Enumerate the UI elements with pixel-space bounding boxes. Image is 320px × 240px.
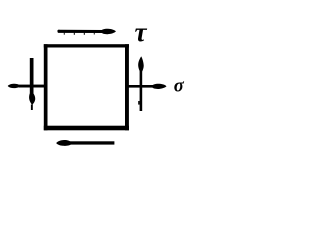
sigma label (174, 76, 185, 96)
stress element square (44, 44, 129, 130)
left face shear line with downward arrowhead (29, 58, 35, 110)
right face normal-stress arrow sigma (points right) (128, 84, 167, 89)
svg-text:τ: τ (135, 17, 148, 47)
top face shear arrow (points right) (57, 29, 116, 35)
svg-text:σ: σ (174, 76, 185, 96)
bottom face shear arrow (points left) (56, 140, 114, 146)
left face normal-stress arrow (points left) (8, 84, 44, 88)
right face shear line with upward arrowhead (138, 56, 144, 111)
tau label (135, 17, 148, 47)
